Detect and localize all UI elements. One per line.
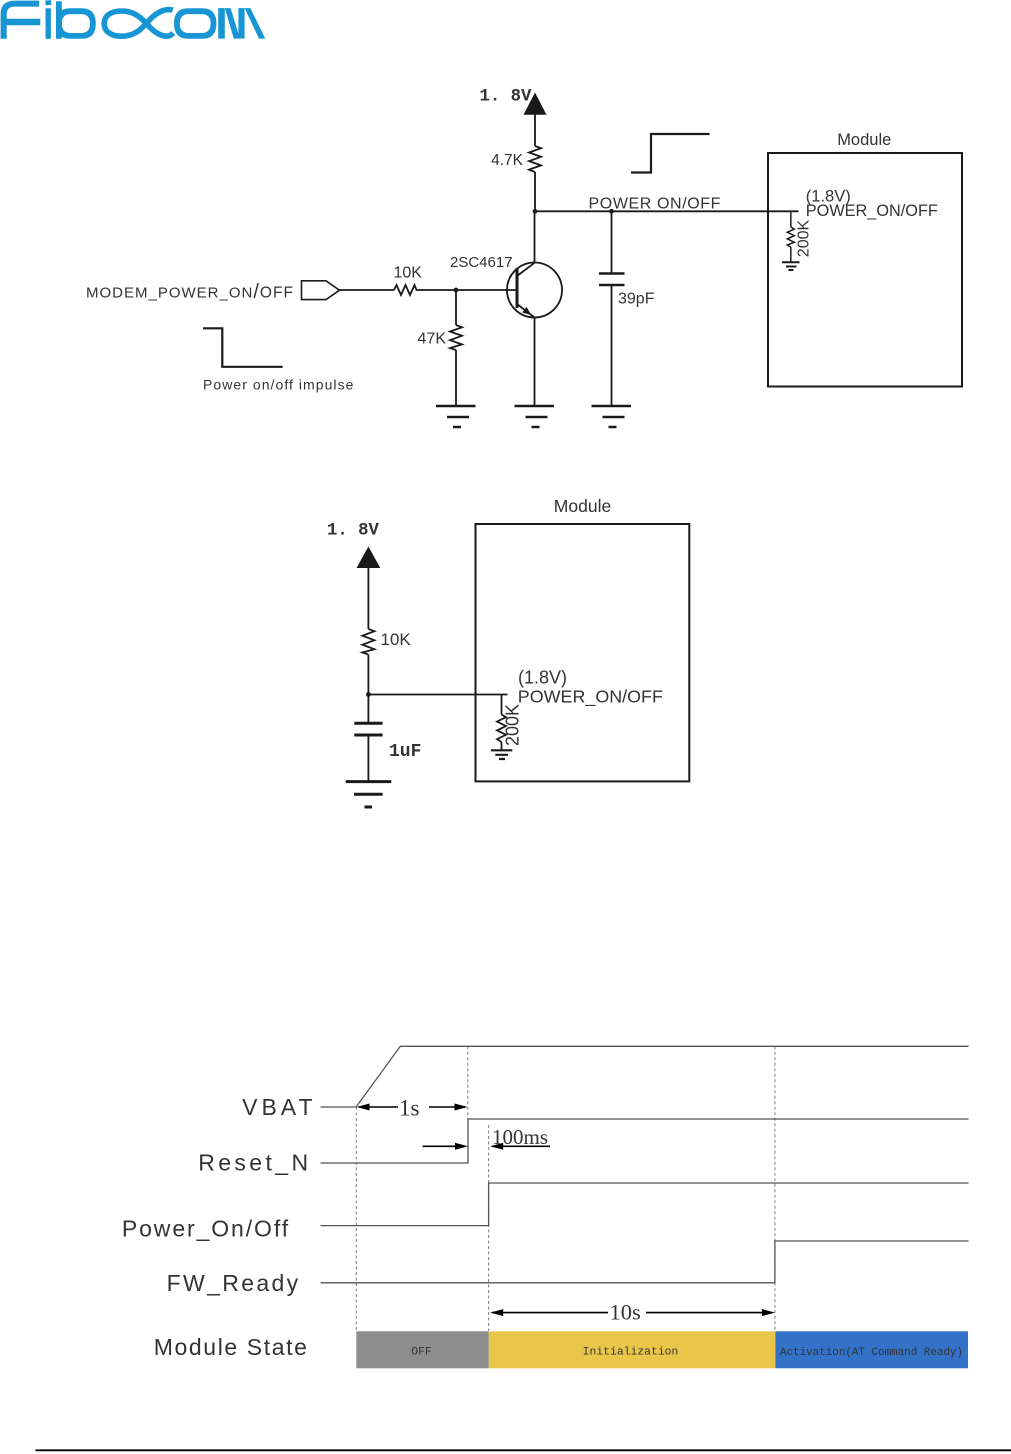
svg-text:Module: Module bbox=[837, 131, 891, 149]
svg-text:200K: 200K bbox=[796, 219, 813, 257]
wire node to cap 1uF bbox=[367, 695, 369, 724]
wire 47K to ground bbox=[455, 350, 457, 406]
svg-text:Initialization: Initialization bbox=[583, 1347, 679, 1359]
transistor collector diagonal bbox=[517, 263, 535, 276]
transistor emitter arrow bbox=[522, 307, 531, 315]
wire from connector to resistor 10K bbox=[340, 289, 395, 291]
node junction at cap bbox=[609, 209, 614, 214]
logo letter m bbox=[218, 8, 225, 38]
svg-text:POWER_ON/OFF: POWER_ON/OFF bbox=[806, 202, 938, 220]
wire base bbox=[456, 289, 517, 291]
dashed marker t1 bbox=[467, 1046, 469, 1119]
10s dimension arrows bbox=[492, 1312, 772, 1314]
wire node to 47K bbox=[455, 290, 457, 325]
svg-text:2SC4617: 2SC4617 bbox=[450, 254, 513, 271]
resistor R 47K zigzag bbox=[450, 325, 462, 350]
ground 3 under capacitor bbox=[592, 406, 632, 427]
wire 10K to node bbox=[418, 289, 456, 291]
resistor R 10K zigzag bbox=[394, 285, 418, 295]
svg-text:(1.8V): (1.8V) bbox=[518, 668, 567, 688]
logo letter F bbox=[1, 1, 41, 39]
capacitor C 1uF plates bbox=[354, 723, 382, 735]
svg-text:200K: 200K bbox=[503, 704, 523, 746]
svg-text:Power_On/Off: Power_On/Off bbox=[122, 1216, 290, 1242]
100ms dimension arrows bbox=[423, 1145, 550, 1147]
resistor R 10K (circuit2) zigzag bbox=[362, 629, 374, 655]
input connector MODEM_POWER_ON/OFF bbox=[302, 281, 340, 300]
state bar Activation bbox=[775, 1331, 968, 1368]
logo Fibocom bbox=[1, 0, 266, 39]
FW_Ready trace bbox=[321, 1241, 969, 1283]
svg-text:10s: 10s bbox=[610, 1300, 641, 1325]
resistor R 4.7K zigzag bbox=[529, 146, 541, 172]
state bar OFF bbox=[356, 1331, 489, 1368]
svg-text:4.7K: 4.7K bbox=[491, 152, 524, 169]
wire node to capacitor bbox=[611, 211, 613, 273]
node junction circuit2 bbox=[366, 692, 371, 697]
svg-text:100ms: 100ms bbox=[492, 1125, 548, 1149]
svg-text:10K: 10K bbox=[394, 265, 423, 282]
module 2 box bbox=[476, 524, 690, 781]
svg-text:FW_Ready: FW_Ready bbox=[167, 1270, 301, 1296]
svg-text:Power on/off impulse: Power on/off impulse bbox=[203, 377, 354, 393]
svg-text:1. 8V: 1. 8V bbox=[480, 88, 532, 107]
svg-text:1s: 1s bbox=[399, 1096, 420, 1121]
wire vcc to 10K bbox=[367, 566, 369, 629]
power net 1.8V arrow bbox=[524, 93, 547, 115]
svg-text:47K: 47K bbox=[418, 331, 447, 348]
svg-text:POWER_ON/OFF: POWER_ON/OFF bbox=[518, 687, 663, 708]
svg-text:39pF: 39pF bbox=[618, 291, 655, 308]
step-down impulse symbol bbox=[203, 328, 283, 367]
wire vcc to resistor bbox=[534, 113, 536, 146]
svg-text:Module State: Module State bbox=[154, 1334, 309, 1360]
logo oc ligature bbox=[104, 10, 173, 37]
ground under 1uF bbox=[346, 782, 392, 807]
wire 10K to node bbox=[367, 655, 369, 695]
node junction at base bbox=[454, 288, 459, 293]
state bar Initialization bbox=[489, 1331, 776, 1368]
svg-text:MODEM_POWER_ON/OFF: MODEM_POWER_ON/OFF bbox=[86, 281, 294, 303]
svg-text:1. 8V: 1. 8V bbox=[327, 522, 379, 541]
wire emitter to ground bbox=[534, 318, 536, 407]
ground 2 under emitter bbox=[515, 406, 555, 427]
VBAT trace bbox=[356, 1046, 969, 1107]
resistor R 200K inside module 2 bbox=[497, 695, 506, 751]
wire collector bbox=[534, 211, 536, 262]
Reset_N trace bbox=[321, 1119, 969, 1163]
wire capacitor to ground bbox=[611, 285, 613, 406]
step-up impulse symbol bbox=[631, 134, 710, 173]
capacitor C 39pF plates bbox=[599, 274, 625, 286]
1s dimension arrows bbox=[359, 1106, 465, 1108]
svg-text:10K: 10K bbox=[381, 630, 412, 649]
footer rule bbox=[36, 1449, 1011, 1451]
logo letter i bbox=[46, 8, 51, 39]
ground small module 1 bbox=[782, 262, 800, 270]
svg-text:POWER ON/OFF: POWER ON/OFF bbox=[589, 196, 722, 213]
svg-text:Reset_N: Reset_N bbox=[198, 1150, 311, 1176]
transistor emitter diagonal bbox=[517, 304, 535, 318]
transistor base bar bbox=[516, 268, 519, 308]
node junction at collector bbox=[533, 209, 538, 214]
resistor R 200K inside module 1 bbox=[787, 211, 794, 262]
dashed marker t2 bbox=[488, 1125, 490, 1331]
wire resistor to node bbox=[534, 172, 536, 211]
svg-text:OFF: OFF bbox=[411, 1347, 432, 1359]
ground 1 under 47K bbox=[436, 406, 476, 427]
ground small module 2 bbox=[491, 750, 512, 759]
wire node to module pin bbox=[368, 694, 507, 696]
dashed marker t3 bbox=[774, 1046, 776, 1331]
dashed marker t0 bbox=[355, 1107, 357, 1331]
transistor Q1 circle bbox=[507, 263, 562, 318]
wire cap to ground bbox=[367, 735, 369, 781]
svg-text:Module: Module bbox=[554, 496, 611, 516]
module 1 box bbox=[768, 153, 962, 387]
svg-text:Activation(AT Command Ready): Activation(AT Command Ready) bbox=[780, 1347, 963, 1359]
VBAT label line bbox=[321, 1106, 357, 1108]
Power_On/Off trace bbox=[321, 1183, 969, 1226]
wire node to module pin bbox=[535, 210, 799, 212]
logo letter b bbox=[56, 1, 62, 39]
svg-text:1uF: 1uF bbox=[389, 742, 421, 762]
power net 1.8V arrow (circuit2) bbox=[357, 547, 381, 569]
logo letter o bbox=[174, 8, 216, 39]
svg-text:VBAT: VBAT bbox=[242, 1094, 316, 1120]
